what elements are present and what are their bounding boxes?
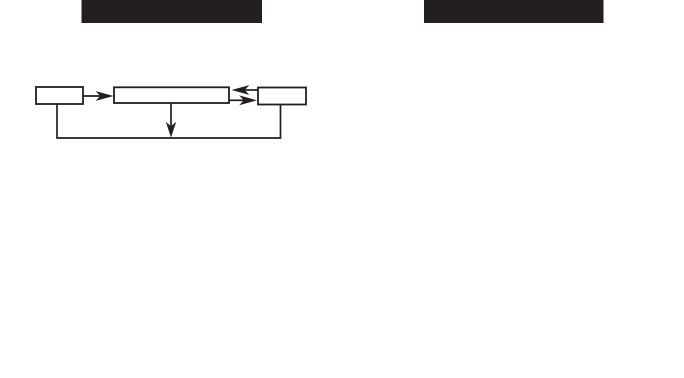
arrow B3 to B2 (upper, pointing left) <box>232 85 259 95</box>
block box B2 (middle) <box>114 87 229 103</box>
arrow B1 to B2 <box>83 91 114 101</box>
arrow B2 down to feedback wire <box>166 103 176 138</box>
arrow B2 to B3 (lower, pointing right) <box>229 95 257 105</box>
block box B3 (right) <box>258 88 306 105</box>
block box B1 (left) <box>36 87 83 104</box>
redaction bar left <box>82 0 263 23</box>
redaction bar right <box>424 0 604 23</box>
feedback wire (bottom loop) <box>57 104 281 138</box>
